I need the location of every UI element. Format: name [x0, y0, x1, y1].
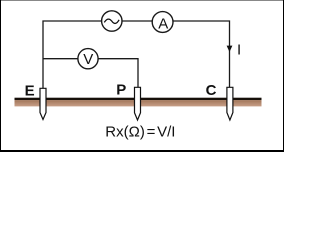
svg-text:I: I — [237, 41, 241, 58]
svg-text:Rx(Ω): Rx(Ω) — [105, 123, 145, 140]
svg-text:V/I: V/I — [157, 123, 175, 140]
svg-text:C: C — [206, 82, 217, 99]
svg-text:P: P — [116, 81, 126, 98]
svg-text:V: V — [83, 51, 93, 68]
svg-text:=: = — [147, 123, 156, 140]
svg-text:E: E — [25, 82, 35, 99]
svg-text:A: A — [158, 16, 168, 33]
